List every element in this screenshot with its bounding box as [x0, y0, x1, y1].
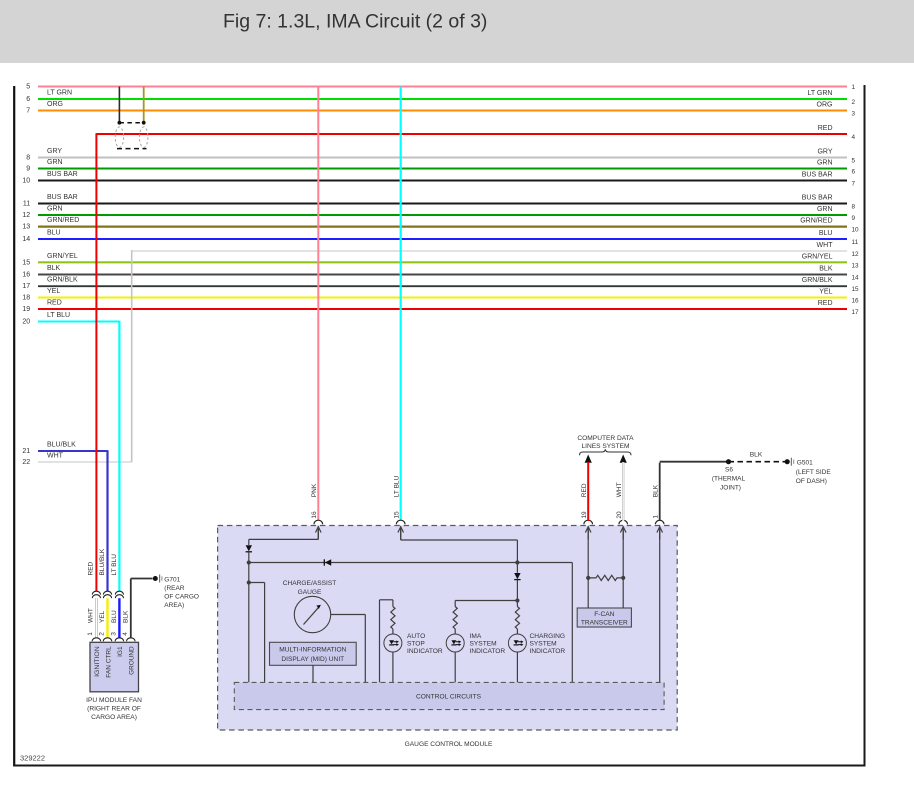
label CHARGE/ASSIST GAUGE: [283, 580, 337, 596]
svg-text:BLK: BLK: [122, 610, 129, 623]
svg-text:BLU/BLK: BLU/BLK: [99, 548, 106, 575]
module pin 16: [311, 483, 322, 539]
splice S6: [726, 459, 731, 464]
svg-text:JOINT): JOINT): [720, 484, 741, 491]
wire BLU y239: [22, 230, 858, 246]
svg-text:12: 12: [22, 212, 30, 219]
inline connector cavity left: [115, 127, 123, 148]
svg-text:AREA): AREA): [164, 602, 184, 609]
junction dot D: [515, 598, 519, 602]
frame right border: [864, 85, 866, 767]
svg-text:RED: RED: [818, 125, 833, 132]
inline connector dashed bottom bar: [117, 148, 147, 150]
wire D3 to junction D: [516, 580, 518, 601]
svg-text:YEL: YEL: [819, 289, 832, 296]
wire MID to control circuits: [312, 665, 314, 682]
svg-text:WHT: WHT: [817, 242, 834, 249]
svg-text:GRN: GRN: [817, 206, 833, 213]
svg-text:BLU: BLU: [819, 230, 833, 237]
svg-text:9: 9: [26, 166, 30, 173]
svg-text:18: 18: [22, 295, 30, 302]
module pin 1: [653, 484, 664, 539]
svg-text:BUS BAR: BUS BAR: [802, 195, 833, 202]
wire WHT y462: [22, 453, 131, 467]
connector row 2 pin 1: [92, 638, 101, 641]
svg-text:16: 16: [22, 272, 30, 279]
svg-text:329222: 329222: [20, 754, 45, 763]
connector row 2 pin 4: [127, 638, 136, 642]
title bar: [0, 0, 914, 63]
wire pin16 internal route: [317, 527, 319, 540]
svg-text:14: 14: [852, 275, 860, 282]
svg-text:GRN/BLK: GRN/BLK: [47, 277, 78, 284]
diode D1 down: [246, 545, 252, 551]
svg-text:17: 17: [852, 309, 860, 316]
wire gauge to control circuits: [331, 614, 366, 616]
junction dot left tap: [118, 121, 122, 125]
connector C row 1 pin for BLU\BLK/YEL: [103, 591, 111, 594]
svg-text:GRN/RED: GRN/RED: [47, 217, 79, 224]
wire RED to pin 19: [587, 462, 589, 521]
ground G501: [785, 458, 832, 485]
svg-text:(THERMAL: (THERMAL: [712, 476, 746, 483]
svg-text:LT BLU: LT BLU: [47, 312, 70, 319]
svg-text:WHT: WHT: [88, 608, 95, 623]
svg-text:1: 1: [653, 515, 660, 519]
svg-text:GROUND: GROUND: [129, 646, 136, 675]
svg-text:RED: RED: [581, 483, 588, 497]
svg-text:Fig 7: 1.3L, IMA Circuit (2 of: Fig 7: 1.3L, IMA Circuit (2 of 3): [223, 11, 487, 33]
junction dot F: [621, 576, 625, 580]
svg-text:RED: RED: [818, 300, 833, 307]
svg-text:RED: RED: [47, 300, 62, 307]
svg-text:(REAR: (REAR: [164, 585, 185, 592]
label AUTO STOP INDICATOR: [407, 633, 443, 655]
IPU module fan box: [90, 642, 139, 692]
wire ORG y110: [26, 101, 855, 117]
arrow up WHT data line: [620, 455, 627, 463]
resistor R3: [515, 607, 519, 629]
svg-text:(RIGHT REAR OF: (RIGHT REAR OF: [87, 705, 141, 712]
svg-text:TRANSCEIVER: TRANSCEIVER: [581, 620, 628, 627]
LED auto stop indicator: [384, 634, 402, 652]
wire BLK tap vertical at top: [118, 87, 120, 123]
svg-text:6: 6: [26, 96, 30, 103]
inline connector dashed top bar: [119, 122, 143, 124]
wire BLK y274: [22, 265, 859, 281]
wire RED y309: [22, 300, 859, 316]
wire BLU/BLK y451: [22, 442, 107, 456]
ground G701: [153, 575, 199, 610]
svg-text:15: 15: [394, 511, 401, 519]
wire diode D1 to control circuits: [248, 552, 250, 683]
LED IMA system indicator: [446, 634, 464, 652]
svg-text:G501: G501: [797, 460, 813, 467]
inline connector cavity right: [140, 127, 148, 148]
svg-text:INDICATOR: INDICATOR: [407, 648, 443, 655]
arrow up RED data line: [585, 455, 592, 463]
svg-text:BLK: BLK: [653, 484, 660, 497]
svg-text:INDICATOR: INDICATOR: [530, 648, 566, 655]
svg-text:12: 12: [852, 251, 860, 258]
label CHARGING SYSTEM INDICATOR: [530, 633, 566, 655]
svg-text:SYSTEM: SYSTEM: [470, 640, 497, 647]
svg-text:BUS BAR: BUS BAR: [802, 172, 833, 179]
wire GRN/BLK y286: [22, 277, 859, 293]
svg-text:11: 11: [23, 201, 30, 208]
svg-text:BLK: BLK: [47, 265, 61, 272]
svg-text:S6: S6: [725, 467, 733, 474]
connector row 2 pin 3: [115, 638, 124, 641]
svg-text:2: 2: [99, 632, 106, 636]
svg-text:LINES SYSTEM: LINES SYSTEM: [581, 443, 629, 450]
svg-text:2: 2: [852, 99, 856, 106]
wire pin1 to control circuits: [659, 527, 661, 683]
svg-text:GRN/RED: GRN/RED: [800, 218, 832, 225]
svg-text:G701: G701: [164, 576, 180, 583]
resistor R4 horizontal: [588, 575, 623, 580]
svg-text:16: 16: [311, 511, 318, 519]
svg-text:10: 10: [852, 227, 860, 234]
wire LT BLU y321: [22, 312, 119, 326]
svg-text:BLU/BLK: BLU/BLK: [47, 442, 76, 449]
wire right branch down: [571, 563, 573, 683]
junction dot C: [515, 560, 519, 564]
F-CAN transceiver box: [577, 608, 631, 627]
label COMPUTER DATA LINES SYSTEM: [577, 435, 634, 450]
wire YEL y297: [22, 288, 859, 304]
wire GRN y168: [26, 159, 855, 175]
svg-text:WHT: WHT: [47, 453, 64, 460]
svg-text:LT BLU: LT BLU: [111, 554, 118, 576]
svg-text:YEL: YEL: [99, 610, 106, 623]
svg-text:COMPUTER DATA: COMPUTER DATA: [577, 435, 634, 442]
svg-text:ORG: ORG: [47, 101, 63, 108]
svg-text:AUTO: AUTO: [407, 633, 425, 640]
charge/assist gauge: [294, 596, 330, 632]
wire BLU vertical to IPU pin 3: [118, 598, 120, 638]
svg-text:3: 3: [110, 632, 117, 636]
wire second vertical from junction B: [249, 582, 265, 584]
auto stop loop wire: [379, 600, 381, 683]
LED charging system indicator: [508, 634, 526, 652]
module pin 15: [394, 475, 405, 539]
connector C row 1 pin for LT BLU/BLU: [115, 591, 123, 594]
svg-text:IPU MODULE FAN: IPU MODULE FAN: [86, 697, 142, 704]
svg-text:FAN CTRL: FAN CTRL: [105, 646, 112, 678]
wire horizontal bus y562: [249, 562, 573, 564]
svg-text:13: 13: [852, 263, 860, 270]
wire BUS BAR y180: [22, 171, 855, 187]
svg-text:20: 20: [22, 319, 30, 326]
wire pin15 internal route: [400, 527, 402, 541]
junction dot A: [247, 560, 251, 564]
label IMA SYSTEM INDICATOR: [470, 633, 506, 655]
svg-text:BUS BAR: BUS BAR: [47, 171, 78, 178]
wire WHT to pin 20: [622, 462, 624, 521]
svg-text:4: 4: [852, 134, 856, 141]
svg-text:GRN: GRN: [817, 160, 833, 167]
diode D3 down: [516, 563, 518, 573]
wire GRN/YEL y262: [22, 253, 859, 269]
wire pin19 to F-CAN: [587, 527, 589, 609]
multi-information display unit box: [270, 642, 357, 665]
module pin 19: [581, 483, 592, 539]
wire LT GRN y99: [26, 90, 855, 106]
wire GRY y157: [26, 148, 855, 164]
frame left border: [13, 86, 15, 767]
svg-text:F-CAN: F-CAN: [594, 611, 614, 618]
wire BLU/BLK vertical from wire 21: [106, 450, 108, 591]
connector row 2 pin 2: [103, 638, 112, 642]
wire WHT y251: [132, 242, 859, 258]
svg-text:14: 14: [22, 236, 30, 243]
wire BLK vertical from G701 to IPU pin 4: [130, 579, 132, 639]
svg-text:OF DASH): OF DASH): [796, 478, 827, 485]
svg-text:4: 4: [122, 632, 129, 636]
wire PNK vertical to pin 16: [317, 87, 319, 521]
svg-text:BUS BAR: BUS BAR: [47, 194, 78, 201]
junction dot B: [247, 580, 251, 584]
svg-text:IMA: IMA: [470, 633, 482, 640]
svg-text:YEL: YEL: [47, 288, 60, 295]
svg-text:LT GRN: LT GRN: [47, 90, 72, 97]
svg-text:GAUGE CONTROL MODULE: GAUGE CONTROL MODULE: [405, 741, 493, 748]
svg-text:GRY: GRY: [817, 149, 832, 156]
svg-text:CHARGE/ASSIST: CHARGE/ASSIST: [283, 580, 337, 587]
wire junction D to IMA branch: [455, 600, 517, 602]
brace over data lines: [580, 449, 632, 455]
svg-text:SYSTEM: SYSTEM: [530, 640, 557, 647]
junction dot E: [586, 576, 590, 580]
svg-text:BLU: BLU: [47, 230, 61, 237]
svg-text:PNK: PNK: [311, 483, 318, 497]
wire GRN/RED y226: [22, 217, 859, 233]
svg-text:6: 6: [852, 169, 856, 176]
wire BUS BAR y203: [23, 194, 856, 210]
charging branch wire: [516, 601, 518, 607]
svg-text:CHARGING: CHARGING: [530, 633, 566, 640]
IMA branch wire: [454, 601, 456, 607]
IPU module fan caption: [86, 697, 142, 721]
svg-text:1: 1: [852, 84, 856, 91]
svg-text:IG1: IG1: [117, 646, 124, 657]
svg-text:MULTI-INFORMATION: MULTI-INFORMATION: [279, 647, 346, 654]
svg-text:15: 15: [852, 286, 860, 293]
svg-text:BLU: BLU: [111, 610, 118, 623]
resistor R2: [453, 607, 457, 629]
svg-text:GAUGE: GAUGE: [298, 589, 322, 596]
wire WHT vertical to IPU pin 1: [95, 598, 98, 638]
svg-text:13: 13: [22, 224, 30, 231]
svg-text:19: 19: [581, 511, 588, 519]
svg-text:22: 22: [22, 459, 30, 466]
svg-text:CONTROL CIRCUITS: CONTROL CIRCUITS: [416, 694, 482, 701]
svg-text:8: 8: [852, 204, 856, 211]
wire BLK dashed S6 to G501: [729, 461, 786, 463]
wire GRN y215: [22, 206, 855, 222]
svg-text:19: 19: [22, 306, 30, 313]
wire YEL vertical to IPU pin 2: [106, 598, 108, 638]
svg-text:9: 9: [852, 215, 856, 222]
svg-text:GRN/BLK: GRN/BLK: [802, 277, 833, 284]
svg-text:BLK: BLK: [750, 452, 763, 459]
wire PNK y86: [26, 84, 855, 92]
svg-text:IGNITION: IGNITION: [94, 646, 101, 677]
wire RED y134: [96, 125, 855, 141]
module pin 20: [616, 482, 627, 539]
svg-text:GRN/YEL: GRN/YEL: [47, 253, 78, 260]
gauge control module box: [218, 526, 678, 731]
svg-text:10: 10: [22, 178, 30, 185]
svg-text:STOP: STOP: [407, 640, 425, 647]
wire BRN tap vertical at top: [143, 87, 145, 123]
wire LT BLU vertical to pin 15: [400, 87, 402, 521]
svg-text:7: 7: [852, 181, 856, 188]
resistor R1: [391, 607, 395, 629]
svg-text:5: 5: [26, 84, 30, 91]
svg-text:5: 5: [852, 158, 856, 165]
svg-text:LT BLU: LT BLU: [394, 475, 401, 497]
svg-text:GRY: GRY: [47, 148, 62, 155]
control circuits box: [234, 682, 664, 709]
svg-text:LT GRN: LT GRN: [807, 90, 832, 97]
wire WHT vertical from wire 12 to wire 22: [131, 250, 133, 462]
svg-text:17: 17: [22, 283, 30, 290]
svg-text:21: 21: [22, 448, 30, 455]
svg-text:(LEFT SIDE: (LEFT SIDE: [796, 469, 832, 476]
svg-text:ORG: ORG: [817, 102, 833, 109]
frame bottom border: [13, 765, 865, 767]
wire BLK from pin 1 to S6: [659, 463, 661, 521]
svg-text:INDICATOR: INDICATOR: [470, 648, 506, 655]
svg-text:7: 7: [26, 108, 30, 115]
svg-text:OF CARGO: OF CARGO: [164, 594, 199, 601]
svg-text:1: 1: [87, 632, 94, 636]
svg-text:GRN: GRN: [47, 159, 63, 166]
svg-text:GRN: GRN: [47, 206, 63, 213]
svg-text:CARGO AREA): CARGO AREA): [91, 714, 137, 721]
wire pin20 to F-CAN: [622, 527, 624, 609]
svg-text:15: 15: [22, 260, 30, 267]
svg-text:11: 11: [852, 239, 859, 246]
connector C row 1 pin for RED/WHT: [92, 591, 100, 594]
svg-text:GRN/YEL: GRN/YEL: [802, 254, 833, 261]
svg-text:DISPLAY (MID) UNIT: DISPLAY (MID) UNIT: [281, 656, 344, 663]
svg-text:BLK: BLK: [819, 266, 833, 273]
wire RED vertical to IPU connector: [95, 133, 97, 591]
svg-text:RED: RED: [88, 561, 95, 575]
svg-text:16: 16: [852, 298, 860, 305]
diode D2 left: [325, 559, 331, 565]
svg-text:8: 8: [26, 155, 30, 162]
junction dot right tap: [142, 121, 146, 125]
wire LT BLU vertical from wire 20: [118, 321, 120, 592]
svg-text:3: 3: [852, 111, 856, 118]
